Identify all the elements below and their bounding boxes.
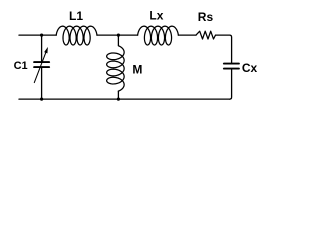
capacitor Cx bottom plate [224,68,239,70]
wire C1 branch lower [41,68,43,99]
junction node bottom-mid [117,98,120,101]
wire M branch lower [117,91,119,99]
svg-text:C1: C1 [14,60,28,72]
C1 arrow head [44,47,48,53]
wire M branch upper [117,35,119,45]
wire bottom [19,98,230,100]
wire top-left segment [19,34,56,36]
junction node A top [117,34,120,37]
C1 variable arrow line [34,52,46,83]
junction node top-left [40,34,43,37]
svg-text:M: M [132,62,142,76]
inductor M [107,46,125,91]
resistor Rs [196,31,216,39]
wire Cx to bottom-right corner [230,70,232,100]
wire Lx to Rs [178,34,196,36]
capacitor C1 top plate [34,61,49,63]
inductor L1 [56,26,97,45]
svg-text:Rs: Rs [198,10,214,24]
wire L1 to node A [97,34,138,36]
capacitor Cx top plate [224,63,239,65]
svg-text:L1: L1 [69,9,83,23]
junction node bottom-left [40,98,43,101]
capacitor C1 bottom plate [34,66,49,68]
svg-text:Lx: Lx [149,8,163,22]
wire Rs to top-right corner [216,35,232,63]
wire C1 branch upper [41,35,43,61]
svg-text:Cx: Cx [242,61,258,75]
inductor Lx [138,26,179,45]
